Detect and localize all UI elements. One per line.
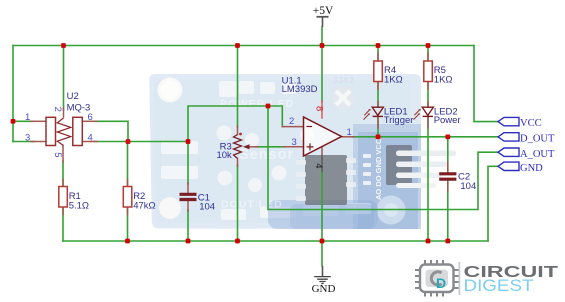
svg-text:10k: 10k	[216, 150, 232, 161]
wire op-amp output row to D_OUT flag	[352, 136, 498, 138]
svg-text:Trigger: Trigger	[384, 115, 414, 126]
svg-text:4: 4	[88, 132, 93, 143]
svg-text:GND: GND	[312, 283, 336, 295]
wire R3 bottom to GND rail	[237, 165, 239, 241]
resistor R4	[374, 61, 403, 85]
pin stub R2 bottom	[127, 207, 129, 215]
pin stub R2 top	[127, 180, 129, 187]
junction left drop / pin 1	[11, 119, 16, 124]
capacitor C2	[439, 172, 476, 192]
svg-text:6: 6	[88, 112, 93, 123]
pin stub R1 bottom	[62, 207, 64, 215]
LED LED1 Trigger	[364, 107, 414, 126]
corner holes	[158, 78, 183, 103]
resistor R1	[59, 187, 89, 212]
wire sensor node up and over to op-amp inverting input	[188, 106, 282, 142]
wire R3 wiper to op-amp non-inverting input	[256, 146, 285, 148]
pin stub C1 top	[187, 183, 189, 193]
pin stub R4 top	[377, 53, 379, 62]
pin stub C2 bottom	[447, 182, 449, 192]
svg-text:5.1Ω: 5.1Ω	[69, 200, 89, 211]
wire VCC branch from rail to VCC flag	[474, 46, 498, 122]
junction GND rail / C1	[186, 239, 191, 244]
svg-text:3: 3	[25, 132, 30, 143]
pin stub C2 top	[447, 162, 449, 172]
light trimpot circle	[377, 196, 406, 225]
wire R5 to LED2	[427, 80, 429, 107]
pin stub C1 bottom	[187, 201, 189, 211]
wire LED2 cathode to GND rail	[427, 116, 429, 241]
power +5V symbol	[313, 5, 334, 27]
pin stub R5 top	[427, 53, 429, 62]
pin stub op-amp pin 1 output	[342, 136, 355, 138]
pin stub MQ-3 pin 6	[84, 120, 98, 122]
pin stub R5 bottom	[427, 82, 429, 90]
wire R2 column	[127, 142, 129, 242]
silk text	[220, 98, 294, 211]
wire left drop from rail to MQ-3 pins	[12, 46, 14, 142]
pin stub op-amp pin 8	[321, 101, 323, 118]
pin stub LED1 anode	[377, 102, 379, 108]
junction sensor node / A_OUT tap	[266, 104, 271, 109]
pin stub MQ-3 pin 4	[84, 141, 98, 143]
pin stub op-amp pin 4 gray run	[321, 156, 323, 172]
wire R5 column upper	[427, 46, 429, 63]
PCB module photo background	[130, 70, 456, 232]
pin stub LED1 cathode	[377, 116, 379, 128]
wire R4 to LED1	[377, 80, 379, 107]
LED LED2 Power	[414, 107, 461, 126]
wire MQ-3 pin 5 to R1	[62, 161, 64, 187]
wire A_OUT run from sensor node	[268, 106, 498, 210]
resistor R2	[123, 187, 155, 212]
svg-text:104: 104	[199, 202, 215, 213]
junction GND rail / R2	[125, 239, 130, 244]
svg-text:GND: GND	[520, 163, 543, 174]
svg-text:Power: Power	[434, 115, 461, 126]
svg-text:VCC: VCC	[520, 118, 542, 129]
wire MQ-3 pin 3	[13, 141, 34, 143]
pin stub LED2 anode	[427, 102, 429, 108]
svg-text:U2: U2	[67, 91, 79, 102]
pin stub R3 bottom	[237, 159, 239, 167]
port flag A_OUT	[498, 148, 555, 160]
svg-text:+5V: +5V	[313, 5, 334, 17]
dark comparator chip on pcb	[305, 155, 347, 205]
svg-text:1KΩ: 1KΩ	[434, 74, 453, 85]
svg-text:D: D	[436, 275, 446, 291]
junction top rail / R3	[235, 43, 240, 48]
pin stub MQ-3 pin 1	[31, 120, 45, 122]
junction sensor node / C1	[186, 139, 191, 144]
svg-text:1KΩ: 1KΩ	[384, 74, 403, 85]
pot screw cross	[332, 87, 355, 110]
wire sensor node row pins 4/6 to C1 column	[94, 141, 188, 143]
wire MQ-3 pin 1	[13, 120, 34, 122]
capacitor C1	[180, 192, 216, 212]
wire R3 top from rail	[237, 46, 239, 128]
svg-text:A_OUT: A_OUT	[520, 149, 555, 160]
svg-text:LM393D: LM393D	[282, 84, 318, 95]
small white pads column	[363, 154, 371, 185]
wire C1 column lower	[187, 210, 189, 241]
wire LED1 cathode to D_OUT row	[377, 116, 379, 137]
junction output row / C2	[445, 134, 450, 139]
pin stub R3 top	[237, 126, 239, 135]
port flag D_OUT	[498, 133, 555, 145]
junction top rail / R5	[426, 43, 431, 48]
pin stub op-amp pin 4 red tip	[321, 147, 323, 156]
resistor R5	[424, 61, 453, 85]
header pins	[396, 151, 456, 157]
pin stub MQ-3 pin 3	[31, 141, 45, 143]
ground symbol GND	[312, 266, 336, 295]
small holes row	[217, 126, 315, 193]
wire C1 column upper	[187, 142, 189, 185]
junction GND rail / op-amp pin 4 / GND symbol	[320, 239, 325, 244]
white wash overlay to fade photo	[130, 70, 425, 232]
junction top rail / +5V / op-amp pin 8	[320, 43, 325, 48]
silk footprints top	[161, 81, 371, 220]
svg-text:2: 2	[52, 107, 63, 112]
svg-text:4: 4	[313, 163, 324, 168]
gas sensor U2 MQ-3	[25, 91, 93, 158]
wire +5V symbol drop	[321, 27, 323, 46]
wire MQ-3 pin 2 drop from rail	[63, 46, 65, 111]
wire R4 column upper	[377, 46, 379, 63]
black header block	[386, 145, 412, 185]
port flag GND	[498, 162, 543, 174]
wire op-amp pin 8 from rail	[321, 46, 323, 103]
wire GND flag branch	[488, 166, 498, 241]
pin stub R4 bottom	[377, 82, 379, 90]
svg-text:2: 2	[289, 116, 294, 127]
wire GND bottom rail	[63, 240, 488, 242]
pin stub MQ-3 pin 5	[62, 146, 64, 163]
pin stub op-amp pin 2	[282, 126, 303, 128]
junction output row / LED1	[376, 134, 381, 139]
pin stub op-amp pin 3	[284, 146, 304, 148]
junction top rail / R4	[376, 43, 381, 48]
wire op-amp pin 4 to GND rail	[321, 170, 323, 241]
junction GND rail / C2	[445, 239, 450, 244]
pin stub LED2 cathode	[427, 116, 429, 128]
pin stub R1 top	[62, 180, 64, 187]
svg-text:47kΩ: 47kΩ	[133, 200, 155, 211]
op-amp U1.1 LM393D	[282, 76, 352, 169]
wire C2 column lower to GND rail	[447, 181, 449, 241]
pin stub MQ-3 pin 2	[63, 108, 65, 117]
junction pin4-6 node / R2	[126, 139, 131, 144]
wire C2 column upper from D_OUT row	[447, 137, 449, 173]
junction top rail / MQ-3 pin 2	[61, 43, 66, 48]
svg-text:1: 1	[347, 127, 352, 138]
svg-text:3: 3	[292, 137, 297, 148]
junction GND rail / LED2	[426, 239, 431, 244]
svg-text:5: 5	[52, 152, 63, 157]
pin stub R3 wiper	[249, 146, 258, 148]
wire +5V top rail	[13, 45, 474, 47]
wire MQ-3 pin 6 over to pin-4 node	[94, 121, 128, 141]
potentiometer R3	[216, 133, 249, 161]
wire GND symbol drop	[321, 241, 323, 266]
svg-text:8: 8	[313, 106, 324, 111]
Circuit Digest logo	[415, 260, 558, 297]
svg-text:1: 1	[25, 112, 30, 123]
junction GND rail / R3	[235, 239, 240, 244]
svg-text:DIGEST: DIGEST	[464, 276, 534, 295]
wire R1 bottom to GND rail	[62, 207, 64, 241]
svg-text:104: 104	[460, 181, 476, 192]
port flag VCC	[498, 117, 542, 129]
svg-text:D_OUT: D_OUT	[520, 134, 555, 145]
right darker strip of photo	[353, 124, 421, 229]
saturated blue bottom band of pcb	[268, 200, 378, 229]
